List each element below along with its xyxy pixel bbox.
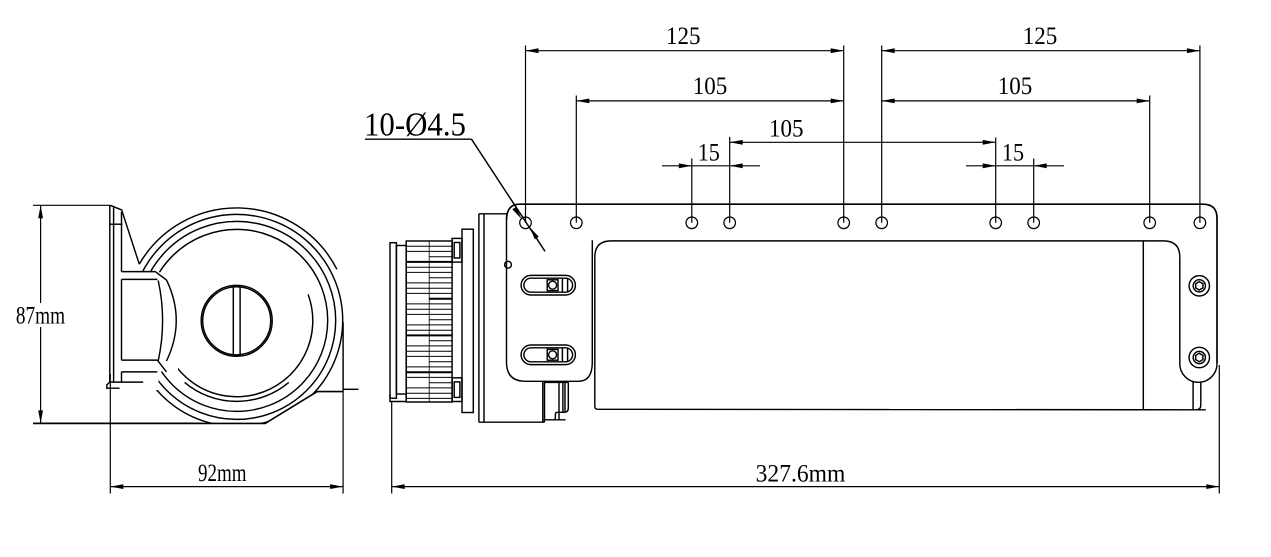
dim 327.6 ext left <box>391 402 393 494</box>
plate pin hole <box>505 261 512 268</box>
arrows <box>526 48 539 53</box>
fin block outline <box>406 241 452 402</box>
right vertical silhouette <box>342 322 344 392</box>
motor cap layer <box>396 246 406 395</box>
slot upper nut <box>547 280 558 291</box>
gearbox right edge below plate <box>543 382 545 423</box>
dim 105 mid line <box>730 141 996 143</box>
svg-text:125: 125 <box>1023 21 1058 50</box>
collar outline <box>544 382 569 420</box>
slot lower shaft lines <box>562 348 567 362</box>
shaft slot <box>233 286 240 355</box>
tie bolt bottom <box>452 378 462 402</box>
slot lower inner <box>524 348 573 362</box>
hub circle inner <box>203 287 271 355</box>
strap arc r81 <box>185 382 289 401</box>
leader diagonal <box>472 139 546 251</box>
plate long chamfer to ring <box>122 210 140 264</box>
lower arm <box>122 360 167 372</box>
svg-text:105: 105 <box>693 71 728 100</box>
end bracket <box>1180 257 1217 382</box>
bracket plate inner edge <box>113 208 115 383</box>
clamp inner arc <box>158 281 162 362</box>
dim 125 left line <box>526 50 844 52</box>
dim 92 ext right <box>342 392 344 494</box>
mount plate left edge <box>507 220 593 381</box>
svg-text:327.6mm: 327.6mm <box>756 458 846 487</box>
dim 105 left line <box>576 100 843 102</box>
body circle r91 <box>146 229 328 411</box>
upper arm <box>122 272 167 280</box>
clamp outer arc <box>167 280 177 361</box>
top plate <box>507 204 1218 364</box>
dim 92 line <box>110 486 343 488</box>
body circle r99 <box>138 221 336 419</box>
end bracket tab <box>1193 381 1201 410</box>
dim 87 ext top <box>33 204 110 206</box>
mask flat bottom <box>150 392 346 450</box>
dim 15 left line <box>662 165 760 167</box>
slot lower nut <box>547 349 558 360</box>
motor end plate <box>390 243 396 399</box>
dim 92 ext left <box>109 374 111 494</box>
mask clamp region <box>122 272 178 390</box>
motor flange <box>462 229 473 412</box>
leader underline <box>365 138 472 140</box>
mounting holes 10x <box>520 217 1206 229</box>
screw top <box>1189 276 1209 296</box>
right bottom tick <box>343 388 358 390</box>
svg-text:92mm: 92mm <box>198 458 247 487</box>
fins <box>406 245 452 247</box>
dim 87 line <box>40 205 42 423</box>
body left edge <box>595 257 598 409</box>
body bottom edge <box>598 408 1206 411</box>
outer ring arc r112.5 <box>139 208 337 269</box>
dim 327.6 ext right <box>1218 365 1220 494</box>
slot upper inner <box>524 278 573 292</box>
svg-text:105: 105 <box>998 71 1033 100</box>
body top edge <box>595 241 1180 257</box>
dim 87 ext bottom / baseline <box>33 422 202 424</box>
bracket plate top chamfer corner <box>110 205 122 210</box>
svg-text:125: 125 <box>666 21 701 50</box>
slot lower outer <box>521 345 575 365</box>
hole extension lines <box>525 46 527 223</box>
fin block mid line <box>428 241 430 402</box>
screw bottom <box>1189 347 1209 367</box>
slot upper outer <box>521 275 575 295</box>
collar inner lines <box>545 382 569 420</box>
flat bottom <box>202 392 343 424</box>
svg-text:10-Ø4.5: 10-Ø4.5 <box>364 107 466 144</box>
bracket plate right edge <box>121 212 123 382</box>
svg-text:15: 15 <box>1002 137 1024 166</box>
tie bolt top <box>452 238 462 262</box>
bracket plate face tick <box>110 223 123 225</box>
bracket plate left edge <box>109 205 111 382</box>
svg-text:105: 105 <box>769 113 804 142</box>
dim 15 right line <box>966 165 1064 167</box>
dim 327.6 line <box>392 486 1220 488</box>
body circle arc r76 <box>162 294 313 396</box>
body right edge <box>1142 241 1144 410</box>
svg-text:87mm: 87mm <box>16 301 65 330</box>
bracket foot <box>107 382 143 388</box>
outer ring circle r106 <box>131 214 343 426</box>
motor cap foot <box>390 394 406 402</box>
svg-text:15: 15 <box>698 137 720 166</box>
hub circle outer <box>201 285 272 356</box>
gearbox block <box>479 214 545 422</box>
slot upper shaft lines <box>562 278 567 292</box>
dim 105 right line <box>882 100 1150 102</box>
dim 125 right line <box>882 50 1200 52</box>
left view: motor front with bracket <box>131 208 343 426</box>
